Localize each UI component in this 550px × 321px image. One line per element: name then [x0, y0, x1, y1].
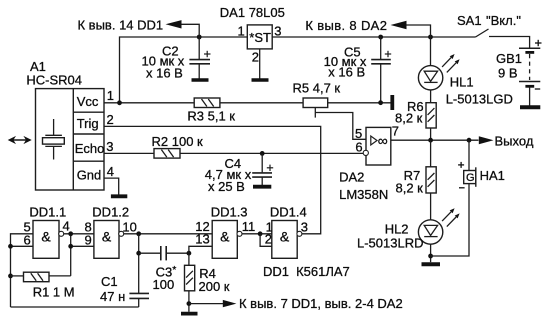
capacitor C5 — [380, 37, 382, 59]
svg-text:HA1: HA1 — [480, 168, 505, 183]
svg-text:х 16 В: х 16 В — [328, 65, 365, 80]
wire Gnd pin to ground — [104, 178, 119, 195]
svg-text:1: 1 — [107, 88, 114, 103]
svg-text:К выв. 14 DD1: К выв. 14 DD1 — [78, 18, 164, 33]
node junction rail/C5 — [378, 35, 383, 40]
svg-text:13: 13 — [195, 232, 209, 247]
svg-text:R1 1 М: R1 1 М — [33, 284, 75, 299]
svg-text:К выв. 8 DA2: К выв. 8 DA2 — [305, 18, 387, 33]
resistor R2 — [154, 149, 180, 159]
output wire pin 7 to Выход — [391, 139, 479, 141]
svg-text:8,2 к: 8,2 к — [396, 181, 424, 196]
double arrow sound waves — [11, 139, 29, 141]
svg-text:G: G — [466, 172, 475, 184]
svg-text:200 к: 200 к — [199, 279, 230, 294]
gate DD1.3 — [212, 221, 237, 259]
ultrasonic transducer symbol — [53, 119, 55, 135]
resistor R5 (trimmer) — [303, 98, 328, 108]
svg-text:LM358N: LM358N — [339, 187, 388, 202]
node junction HA1 — [467, 138, 472, 143]
wire to pin 8 DA2 — [406, 25, 431, 37]
resistor R6 — [430, 90, 432, 103]
capacitor C1 — [129, 292, 149, 294]
wire inputs DD1.1 — [11, 234, 34, 307]
svg-text:К561ЛА7: К561ЛА7 — [296, 264, 350, 279]
node junction pin6 — [8, 244, 13, 249]
svg-text:L-5013LRD: L-5013LRD — [357, 236, 424, 251]
svg-text:&: & — [41, 228, 51, 244]
R5 tap wire to op-amp pin 5 — [314, 108, 316, 118]
gate DD1.2 — [94, 221, 119, 259]
wire DA1 pin 2 to ground — [259, 49, 261, 79]
capacitor C3 — [139, 252, 161, 254]
buzzer HA1 — [468, 140, 470, 170]
svg-text:2: 2 — [265, 232, 272, 247]
svg-text:2: 2 — [107, 112, 114, 127]
svg-text:R2 100 к: R2 100 к — [152, 134, 204, 149]
svg-text:SA1: SA1 — [457, 13, 482, 28]
svg-text:4: 4 — [107, 164, 114, 179]
ground (C5/R5 node, rotated) — [390, 95, 394, 110]
svg-text:DA2: DA2 — [339, 170, 364, 185]
wire R2 to op-amp pin 6 — [180, 152, 363, 154]
wire to К выв. 7 DD1 arrow — [189, 303, 223, 305]
wire HL2 to ground — [430, 244, 432, 262]
ground (DA1) — [252, 78, 269, 82]
svg-text:Gnd: Gnd — [77, 168, 102, 183]
node junction R4/ground/arrow — [187, 301, 192, 306]
node junction HL2/HA1 ground — [428, 254, 433, 259]
svg-text:∞: ∞ — [378, 133, 388, 149]
svg-text:Выход: Выход — [495, 134, 534, 149]
resistor R4 — [188, 253, 190, 265]
svg-text:HL1: HL1 — [450, 74, 474, 89]
wire R5 to ground node — [328, 102, 391, 104]
svg-text:6: 6 — [24, 232, 31, 247]
op-amp DA2 — [366, 127, 391, 165]
svg-text:х 16 В: х 16 В — [146, 65, 183, 80]
ground (HL2) — [422, 262, 441, 266]
svg-text:R5 4,7 к: R5 4,7 к — [293, 80, 341, 95]
svg-text:C1: C1 — [101, 274, 118, 289]
svg-text:Vcc: Vcc — [77, 94, 99, 109]
svg-text:3: 3 — [301, 219, 308, 234]
wire down to C1/C3 — [138, 234, 140, 293]
svg-text:8,2 к: 8,2 к — [395, 110, 423, 125]
svg-text:9: 9 — [85, 232, 92, 247]
svg-text:Trig: Trig — [77, 116, 99, 131]
output arrow — [479, 136, 494, 144]
resistor R3 — [194, 98, 220, 108]
wire +5V top rail left — [120, 37, 248, 103]
wire DD1.2 output to DD1.3 pin 12 — [124, 233, 213, 235]
sensor module A1 HC-SR04 — [36, 89, 105, 190]
wire HA1 to ground — [431, 184, 469, 256]
switch SA1 — [476, 29, 489, 37]
node junction rail/HL1 branch — [428, 35, 433, 40]
wire DD1.3 output to DD1.4 — [242, 233, 272, 235]
svg-text:х 25 В: х 25 В — [208, 179, 245, 194]
svg-text:11: 11 — [242, 219, 256, 234]
node junction C4 — [260, 151, 265, 156]
resistor R7 — [430, 140, 432, 167]
svg-text:К выв. 7 DD1, выв. 2-4 DA2: К выв. 7 DD1, выв. 2-4 DA2 — [239, 296, 403, 311]
svg-text:*ST: *ST — [249, 30, 271, 45]
svg-text:HL2: HL2 — [385, 222, 409, 237]
svg-text:DD1.1: DD1.1 — [29, 205, 66, 220]
svg-text:&: & — [102, 228, 112, 244]
wire to pin 14 DD1 — [181, 24, 200, 37]
wire Vcc pin to R3 — [104, 102, 194, 104]
battery GB1 — [519, 47, 540, 49]
capacitor C2 — [198, 37, 200, 59]
LED HL2 arrows — [442, 212, 451, 221]
svg-text:7: 7 — [392, 124, 399, 139]
wire Echo pin to R2 — [104, 152, 154, 154]
svg-text:GB1: GB1 — [496, 51, 522, 66]
svg-text:R3 5,1 к: R3 5,1 к — [187, 109, 235, 124]
node junction rail/C2 — [197, 35, 202, 40]
node junction R6/R7 — [428, 138, 433, 143]
svg-text:DD1: DD1 — [263, 264, 289, 279]
ground (C2) — [192, 78, 209, 82]
svg-text:&: & — [280, 228, 290, 244]
svg-text:DD1.2: DD1.2 — [92, 205, 129, 220]
svg-text:DA1 78L05: DA1 78L05 — [220, 5, 285, 20]
wire +9V top rail right — [272, 36, 475, 38]
svg-text:"Вкл.": "Вкл." — [486, 13, 521, 28]
svg-text:47 н: 47 н — [100, 289, 125, 304]
LED HL1 arrows — [442, 58, 451, 67]
wire to DD1.4 pin 2 — [260, 234, 272, 247]
capacitor C4 — [261, 153, 263, 172]
node junction C5/R5/ground — [378, 100, 383, 105]
ground (R4) — [181, 312, 198, 316]
svg-text:1: 1 — [238, 23, 245, 38]
node junction C3/R4/pin13 — [187, 251, 192, 256]
svg-text:9 В: 9 В — [498, 65, 518, 80]
svg-text:HC-SR04: HC-SR04 — [26, 73, 82, 88]
gate DD1.1 — [33, 221, 59, 259]
wire DD1.1 output to DD1.2 inputs — [64, 233, 94, 235]
ground (battery) — [520, 105, 540, 109]
svg-text:&: & — [220, 228, 230, 244]
voltage regulator DA1 78L05 — [247, 25, 272, 49]
ground (A1) — [111, 194, 127, 198]
ground (C4) — [253, 185, 271, 189]
svg-text:100: 100 — [153, 277, 175, 292]
resistor R1 — [24, 272, 50, 282]
svg-text:3: 3 — [274, 23, 281, 38]
wire R3 to R5 — [220, 102, 303, 104]
wire bottom rail C1 to DD1.1 inputs — [11, 306, 139, 308]
svg-text:2: 2 — [252, 50, 259, 65]
svg-text:DD1.3: DD1.3 — [211, 205, 248, 220]
wire Trig pin to DD1.4 output — [104, 126, 321, 233]
gate DD1.4 — [272, 221, 297, 259]
svg-text:Echo: Echo — [75, 141, 105, 156]
wire to pin 13 — [189, 246, 212, 253]
LED HL1 — [430, 37, 432, 66]
LED HL2 — [430, 193, 432, 220]
svg-text:L-5013LGD: L-5013LGD — [446, 91, 513, 106]
node junction R1 left — [8, 274, 13, 279]
svg-text:3: 3 — [106, 139, 113, 154]
node junction Vcc — [117, 100, 122, 105]
svg-text:DD1.4: DD1.4 — [270, 205, 307, 220]
svg-text:10: 10 — [122, 219, 136, 234]
svg-text:4: 4 — [63, 219, 70, 234]
svg-text:6: 6 — [355, 140, 362, 155]
